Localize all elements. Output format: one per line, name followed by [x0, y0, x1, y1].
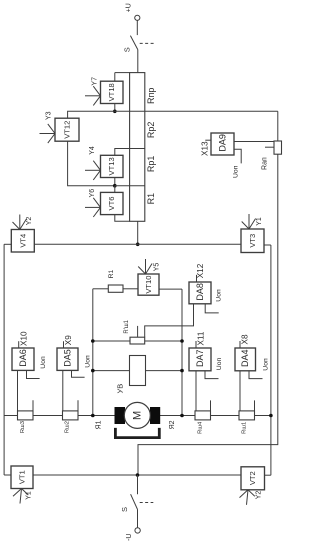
svg-text:Uоп: Uоп: [233, 165, 240, 178]
svg-text:Y2: Y2: [256, 491, 263, 500]
svg-text:Y1: Y1: [26, 491, 33, 500]
svg-text:Uоп: Uоп: [263, 358, 270, 371]
transistor VT18: [101, 81, 124, 103]
svg-text:Uоп: Uоп: [85, 355, 92, 368]
switch S (bottom): [120, 494, 153, 512]
tap stub at Ran: [265, 146, 274, 148]
svg-text:УВ: УВ: [116, 384, 125, 394]
pin X8 stub: [240, 334, 249, 348]
svg-text:Y2: Y2: [26, 217, 33, 226]
sensor DA8: [189, 282, 211, 304]
wire VT2 right to right leg rail: [265, 474, 271, 476]
svg-text:М: М: [131, 411, 143, 420]
transistor VT10: [138, 274, 159, 295]
wire bus to switch S (bottom): [137, 475, 139, 494]
wire R1 to VT10: [123, 288, 138, 290]
wire DA9 to Ran rail: [234, 141, 274, 143]
shunt resistor Rш4: [195, 411, 211, 434]
control arrow Y7: [85, 77, 101, 105]
shunt resistor Rш1: [239, 411, 255, 434]
node right leg / bus: [269, 414, 273, 418]
svg-text:Rпр: Rпр: [146, 88, 156, 104]
resistor R'ш1: [124, 319, 145, 344]
svg-text:DA6: DA6: [18, 349, 28, 367]
svg-text:DA4: DA4: [240, 349, 250, 367]
svg-text:X12: X12: [196, 263, 205, 278]
wire tap line 2 (rail A to rail B): [93, 370, 182, 372]
transistor VT12: [55, 118, 79, 141]
wire VT18 bottom pin: [114, 104, 116, 112]
sensor DA5: [57, 348, 78, 370]
terminal -U: [126, 528, 141, 541]
pin X12 stub: [196, 263, 205, 282]
sensor DA9: [211, 133, 234, 155]
tap stub Rш2: [77, 400, 79, 411]
wire DA4 to Rш1: [239, 371, 241, 411]
resistor R1: [108, 269, 123, 292]
svg-text:Rш2: Rш2: [65, 421, 71, 433]
wire VT10 right to rail B: [159, 288, 182, 290]
svg-text:X9: X9: [64, 335, 73, 345]
svg-text:Rш1: Rш1: [242, 422, 248, 434]
tap stub Rш1: [254, 400, 256, 411]
wire VT4 left to rail: [4, 243, 11, 245]
svg-text:R1: R1: [146, 193, 156, 205]
svg-text:VT18: VT18: [107, 83, 116, 101]
wire bottom bus: [33, 474, 241, 476]
terminal +U: [125, 3, 140, 20]
node rail A / bus: [91, 414, 95, 418]
wire DA6 to Rш3: [17, 370, 19, 411]
control arrow Y1 (VT3): [242, 214, 263, 229]
field winding УВ: [116, 356, 146, 394]
wire Ran rail top: [277, 111, 279, 141]
svg-text:+U: +U: [125, 3, 132, 12]
wire R'ш1 right terminal to DA8: [145, 304, 194, 337]
svg-text:VT3: VT3: [248, 234, 257, 248]
label Я1: [96, 420, 103, 429]
node: chain tap 2 (Rp1/R1): [113, 184, 117, 188]
tap stub Rш3: [32, 400, 34, 411]
svg-text:Rр2: Rр2: [146, 122, 156, 139]
svg-text:X13: X13: [201, 141, 210, 156]
wire chain bottom to center bus: [137, 221, 139, 244]
control arrow Y2 (VT4): [13, 215, 34, 230]
tap stub R'ш1: [137, 326, 139, 337]
sensor DA7: [189, 348, 211, 371]
wire +U terminal to switch S: [136, 20, 138, 35]
node: center bus junction: [136, 243, 140, 247]
node rail A / tap1: [91, 339, 95, 343]
svg-text:X10: X10: [20, 331, 29, 346]
svg-text:R1: R1: [108, 269, 115, 278]
svg-text:X11: X11: [196, 331, 205, 345]
shunt resistor Rш3: [18, 411, 34, 433]
svg-text:DA9: DA9: [217, 134, 227, 152]
resistor Ran: [262, 141, 282, 170]
transistor VT2: [241, 467, 265, 490]
control arrow Y4: [85, 146, 101, 180]
svg-text:X8: X8: [240, 334, 249, 344]
wire left rail: [3, 244, 5, 475]
svg-text:Rш3: Rш3: [20, 421, 26, 433]
pin X11 stub: [196, 331, 205, 348]
resistor chain outline (Rnp,Rp2,Rp1,R1): [115, 73, 145, 222]
switch S (top): [122, 36, 153, 53]
svg-text:Rап: Rап: [262, 157, 269, 170]
wire VT12 top pin: [68, 111, 115, 118]
shunt resistor Rш2: [63, 411, 79, 433]
sensor DA4: [235, 348, 256, 371]
svg-text:R′ш1: R′ш1: [124, 319, 130, 333]
control arrow Y3: [40, 111, 56, 143]
svg-text:VT10: VT10: [144, 276, 153, 294]
wire rail B (VT10 to armature bus): [181, 289, 183, 415]
label Rnp: [146, 88, 156, 104]
svg-text:S: S: [122, 47, 131, 52]
transistor VT4: [11, 230, 34, 253]
svg-text:Uоп: Uоп: [40, 356, 47, 369]
wire chain divider Rp1-R1: [115, 185, 145, 187]
svg-text:VT6: VT6: [107, 197, 116, 211]
svg-text:Y4: Y4: [89, 146, 96, 155]
svg-text:VT13: VT13: [107, 157, 116, 175]
svg-text:Rр1: Rр1: [146, 156, 156, 173]
svg-text:VT1: VT1: [18, 470, 27, 484]
pin X13 stub: [201, 140, 212, 156]
control arrow Y6: [85, 189, 101, 217]
wire VT12 bottom pin: [68, 141, 115, 186]
wire VT1 left to rail: [4, 474, 11, 476]
wire VT18 top pin: [114, 73, 116, 82]
control arrow Y1 (VT1): [13, 489, 33, 504]
svg-text:Uоп: Uоп: [216, 357, 223, 370]
svg-text:Я1: Я1: [96, 420, 103, 429]
wire armature bus: [4, 415, 271, 417]
stub Uon (DA6): [27, 356, 47, 379]
node rail A / tap2: [91, 369, 95, 373]
wire VT13 bottom pin: [114, 178, 116, 186]
label Я2: [169, 420, 176, 429]
label Rp1: [146, 156, 156, 173]
tap stub Rш4: [210, 400, 212, 411]
svg-text:Y6: Y6: [89, 189, 96, 198]
node rail B / tap2: [180, 369, 184, 373]
svg-text:Я2: Я2: [169, 420, 176, 429]
wire VT6 bottom pin to chain bottom: [115, 215, 130, 222]
stub Uon (DA9): [233, 149, 242, 178]
transistor VT6: [101, 192, 124, 214]
node rail B / bus: [180, 414, 184, 418]
node bottom bus junction: [136, 473, 140, 477]
wire switch to -U terminal: [137, 509, 139, 527]
svg-text:Y7: Y7: [92, 77, 99, 86]
wire right leg rail (VT3 to VT2): [270, 245, 272, 475]
wire switch S to resistor chain: [137, 50, 139, 73]
wire tap1 to Ran rail (long horizontal): [115, 110, 278, 112]
svg-text:Y1: Y1: [256, 217, 263, 226]
svg-text:Y3: Y3: [45, 111, 52, 120]
svg-text:VT2: VT2: [248, 471, 257, 485]
svg-text:-U: -U: [126, 534, 133, 541]
svg-text:VT12: VT12: [62, 121, 71, 139]
transistor VT1: [11, 466, 33, 489]
wire VT3 right: [264, 244, 271, 246]
transistor VT3: [241, 229, 264, 253]
sensor DA6: [12, 348, 34, 370]
stub Uon (DA5): [72, 355, 92, 377]
svg-text:VT4: VT4: [18, 234, 27, 248]
svg-text:Y5: Y5: [154, 263, 161, 272]
svg-text:DA5: DA5: [63, 349, 73, 367]
control arrow Y2 (VT2): [240, 490, 263, 505]
node: chain tap 1 (Rnp/Rp2): [113, 110, 117, 114]
wire R1 left to rail A: [93, 288, 109, 290]
wire rail A (R1 to armature bus): [92, 289, 94, 416]
wire DA5 to Rш2: [62, 370, 64, 411]
wire Ran rail bottom + return jog: [138, 154, 278, 475]
wire DA7 to Rш4: [195, 371, 197, 411]
stub Uon (DA8): [205, 289, 222, 313]
pin X9 stub: [64, 335, 73, 348]
svg-text:S: S: [120, 507, 129, 512]
stub Uon (DA7): [205, 357, 223, 378]
label Rp2: [146, 122, 156, 139]
wire tap line 1 (rail A to rail B): [93, 340, 182, 342]
wire VT6 top pin: [114, 186, 116, 193]
svg-text:DA8: DA8: [195, 283, 205, 301]
pin X10 stub: [19, 331, 29, 348]
wire center bus (VT4 to VT3): [34, 243, 241, 245]
motor frame bracket: [115, 428, 159, 438]
label R1 (chain): [146, 193, 156, 205]
transistor VT13: [101, 155, 124, 177]
svg-text:Rш4: Rш4: [197, 421, 203, 434]
svg-text:Uоп: Uоп: [216, 289, 223, 302]
wire VT13 top pin / chain divider Rp2-Rp1: [115, 149, 145, 156]
motor M: [115, 402, 161, 428]
svg-text:DA7: DA7: [195, 349, 205, 367]
stub Uon (DA4): [249, 358, 270, 379]
control arrow Y5: [138, 259, 160, 274]
node rail B / tap1: [180, 339, 184, 343]
